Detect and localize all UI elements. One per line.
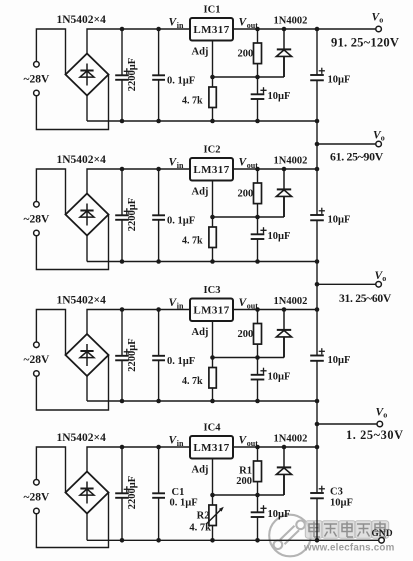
wire Adj pin to node A2 and down to ground (stage 2)	[212, 181, 214, 228]
wire bridge DC- riser to ground rail (stage 2)	[86, 236, 88, 262]
wire Adj node line A4 (stage 4)	[213, 494, 285, 496]
wire bridge DC+ riser to Vin rail (stage 2)	[87, 169, 190, 194]
svg-text:10µF: 10µF	[328, 355, 351, 366]
svg-text:~28V: ~28V	[24, 492, 50, 504]
terminal AC input upper ~28V (stage 2)	[36, 169, 65, 215]
regulator U2 IC2 LM317 (stage 2)	[190, 158, 233, 181]
svg-text:in: in	[177, 21, 184, 30]
terminal Vo output 31.25~60V (stage 3)	[376, 282, 382, 288]
svg-text:31. 25~60V: 31. 25~60V	[339, 292, 392, 305]
svg-text:IC2: IC2	[204, 145, 221, 156]
bridge rectifier D4 1N5402x4 (stage 4)	[66, 472, 109, 514]
svg-text:10µF: 10µF	[268, 509, 291, 520]
svg-text:1N5402×4: 1N5402×4	[57, 295, 107, 307]
terminal Vo output 61.25~90V (stage 2)	[376, 141, 382, 147]
svg-text:200: 200	[237, 49, 253, 60]
diode 1N4002 (stage 3)	[283, 310, 285, 330]
svg-text:10µF: 10µF	[268, 372, 291, 383]
svg-text:1N4002: 1N4002	[274, 296, 308, 307]
terminal GND	[379, 538, 385, 544]
svg-text:2200µF: 2200µF	[127, 198, 138, 231]
svg-text:200: 200	[237, 329, 253, 340]
svg-text:IC1: IC1	[204, 5, 221, 16]
wire Adj pin to node A3 and down to ground (stage 3)	[212, 321, 214, 368]
wire Adj pin to node A4 and down to ground (stage 4)	[212, 459, 214, 506]
svg-text:~28V: ~28V	[24, 354, 50, 366]
svg-text:LM317: LM317	[193, 24, 229, 36]
capacitor 10µF on Adj node (stage 4)	[257, 495, 259, 512]
svg-text:0. 1µF: 0. 1µF	[170, 498, 198, 509]
svg-text:1N5402×4: 1N5402×4	[57, 432, 107, 444]
svg-text:0. 1µF: 0. 1µF	[167, 76, 195, 87]
watermark logo circle www.elecfans.com	[269, 515, 311, 557]
capacitor 0.1µF (stage 1)	[158, 29, 160, 75]
wire bridge DC- riser to ground rail (stage 3)	[86, 376, 88, 401]
resistor 4.7k (stage 2)	[212, 226, 214, 228]
bridge rectifier D1 1N5402x4 (stage 1)	[66, 54, 109, 96]
svg-text:C1: C1	[172, 487, 185, 498]
svg-text:Adj: Adj	[192, 47, 209, 58]
svg-text:LM317: LM317	[193, 304, 229, 316]
svg-text:in: in	[177, 161, 184, 170]
svg-text:Adj: Adj	[192, 465, 209, 476]
capacitor 0.1µF (stage 3)	[158, 310, 160, 356]
wire Vo3 stub	[317, 283, 376, 285]
terminal AC input upper ~28V (stage 1)	[36, 29, 65, 75]
wire Adj node line A2 (stage 2)	[213, 216, 285, 218]
svg-text:R2: R2	[197, 511, 210, 522]
potentiometer R2 4.7k (stage 4)	[212, 504, 214, 506]
capacitor 10µF on Adj node (stage 1)	[257, 77, 259, 94]
svg-text:in: in	[177, 439, 184, 448]
svg-text:0. 1µF: 0. 1µF	[167, 216, 195, 227]
wire stage3 ground to stage4 output (x=317)	[316, 401, 318, 447]
svg-text:o: o	[381, 134, 385, 143]
capacitor 10µF on Adj node (stage 2)	[257, 217, 259, 234]
svg-text:~28V: ~28V	[24, 214, 50, 226]
svg-text:IC4: IC4	[204, 423, 222, 434]
svg-text:1N4002: 1N4002	[274, 156, 308, 167]
wire bridge DC+ riser to Vin rail (stage 4)	[87, 447, 190, 472]
svg-text:~28V: ~28V	[24, 74, 50, 86]
wire ground rail (stage 1)	[87, 120, 317, 122]
capacitor 2200µF (stage 3)	[121, 310, 123, 356]
wire Adj node line A1 (stage 1)	[213, 76, 285, 78]
svg-text:Adj: Adj	[192, 187, 209, 198]
regulator U4 IC4 LM317 (stage 4)	[190, 436, 233, 459]
svg-text:0. 1µF: 0. 1µF	[167, 356, 195, 367]
svg-text:LM317: LM317	[193, 164, 229, 176]
svg-text:C3: C3	[330, 487, 343, 498]
resistor R1 200 (stage 4)	[257, 447, 259, 461]
resistor 200 (stage 3)	[257, 310, 259, 324]
bridge rectifier D3 1N5402x4 (stage 3)	[66, 334, 109, 376]
svg-text:10µF: 10µF	[328, 215, 351, 226]
diode 1N4002 (stage 2)	[283, 169, 285, 189]
wire Adj node line A3 (stage 3)	[213, 357, 285, 359]
terminal AC input upper ~28V (stage 4)	[36, 447, 65, 493]
terminal AC input lower ~28V (stage 3)	[34, 371, 40, 377]
svg-text:2200µF: 2200µF	[127, 476, 138, 509]
capacitor 10µF output (stage 2)	[316, 169, 318, 215]
svg-text:1N4002: 1N4002	[274, 434, 308, 445]
wire Vo4 stub	[317, 423, 377, 425]
svg-text:10µF: 10µF	[328, 75, 351, 86]
wire ground rail (stage 4)	[87, 539, 317, 541]
regulator U1 IC1 LM317 (stage 1)	[190, 18, 233, 41]
wire ground rail (stage 2)	[87, 261, 317, 263]
svg-text:10µF: 10µF	[268, 91, 291, 102]
capacitor 10µF output (stage 1)	[316, 29, 318, 75]
capacitor 2200µF (stage 1)	[121, 29, 123, 75]
svg-text:R1: R1	[239, 466, 252, 477]
wire Vout line (stage 2)	[233, 168, 317, 170]
capacitor C1 0.1µF (stage 4)	[158, 447, 160, 493]
capacitor C3 10µF output (stage 4)	[316, 447, 318, 493]
svg-text:Adj: Adj	[192, 327, 209, 338]
svg-text:www.elecfans.com: www.elecfans.com	[303, 543, 395, 554]
resistor 200 (stage 1)	[257, 29, 259, 43]
resistor 200 (stage 2)	[257, 169, 259, 183]
wire bridge DC+ riser to Vin rail (stage 3)	[87, 310, 190, 335]
svg-text:o: o	[383, 411, 387, 420]
wire Vout line (stage 3)	[233, 309, 317, 311]
svg-text:1N5402×4: 1N5402×4	[57, 14, 107, 26]
svg-text:o: o	[382, 274, 386, 283]
svg-text:in: in	[177, 301, 184, 310]
svg-text:200: 200	[236, 476, 252, 487]
watermark text 电子发烧友 (stylized)	[305, 521, 322, 538]
svg-text:10µF: 10µF	[268, 231, 291, 242]
wire Vo2 stub	[317, 143, 376, 145]
terminal AC input upper ~28V (stage 3)	[36, 310, 65, 356]
bridge rectifier D2 1N5402x4 (stage 2)	[66, 194, 109, 236]
capacitor 10µF output (stage 3)	[316, 310, 318, 356]
terminal Vo output 91.25~120V (stage 1)	[376, 26, 382, 32]
svg-text:1N4002: 1N4002	[274, 16, 308, 27]
wire stage2 ground to stage3 output (x=317)	[316, 262, 318, 310]
wire Vout line (stage 1)	[233, 28, 376, 30]
svg-text:200: 200	[237, 189, 253, 200]
svg-text:o: o	[379, 16, 383, 25]
wire stage4 ground rail to GND terminal	[317, 539, 378, 541]
wire ground rail (stage 3)	[87, 400, 317, 402]
resistor 4.7k (stage 3)	[212, 367, 214, 369]
svg-text:2200µF: 2200µF	[127, 58, 138, 91]
capacitor 2200µF (stage 2)	[121, 169, 123, 215]
wire bridge DC- riser to ground rail (stage 4)	[86, 514, 88, 541]
capacitor 0.1µF (stage 2)	[158, 169, 160, 215]
regulator U3 IC3 LM317 (stage 3)	[190, 299, 233, 322]
svg-text:4. 7k: 4. 7k	[182, 376, 203, 387]
wire Vout line (stage 4)	[233, 446, 317, 448]
terminal AC input lower ~28V (stage 2)	[34, 230, 40, 236]
svg-text:10µF: 10µF	[330, 498, 353, 509]
capacitor 10µF on Adj node (stage 3)	[257, 358, 259, 375]
svg-text:61. 25~90V: 61. 25~90V	[330, 149, 384, 163]
svg-text:91. 25~120V: 91. 25~120V	[331, 35, 399, 49]
wire stage1 ground to stage2 output (x=317)	[316, 121, 318, 169]
terminal Vo output 1.25~30V (stage 4)	[377, 421, 383, 427]
svg-text:GND: GND	[372, 529, 393, 539]
svg-text:1. 25~30V: 1. 25~30V	[346, 428, 404, 442]
terminal AC input lower ~28V (stage 4)	[34, 508, 40, 514]
diode 1N4002 (stage 1)	[283, 29, 285, 49]
wire bridge DC- riser to ground rail (stage 1)	[86, 96, 88, 122]
svg-text:1N5402×4: 1N5402×4	[57, 154, 107, 166]
svg-text:2200µF: 2200µF	[127, 338, 138, 371]
svg-text:4. 7k: 4. 7k	[182, 236, 203, 247]
terminal AC input lower ~28V (stage 1)	[34, 90, 40, 96]
wire bridge DC+ riser to Vin rail (stage 1)	[87, 29, 190, 54]
capacitor C2 2200µF (stage 4)	[121, 447, 123, 493]
wire Adj pin to node A1 and down to ground (stage 1)	[212, 41, 214, 88]
diode 1N4002 (stage 4)	[283, 447, 285, 467]
svg-text:4. 7k: 4. 7k	[189, 523, 211, 534]
svg-text:IC3: IC3	[204, 285, 221, 296]
svg-text:4. 7k: 4. 7k	[182, 96, 203, 107]
svg-text:LM317: LM317	[193, 442, 229, 454]
resistor 4.7k (stage 1)	[212, 86, 214, 88]
